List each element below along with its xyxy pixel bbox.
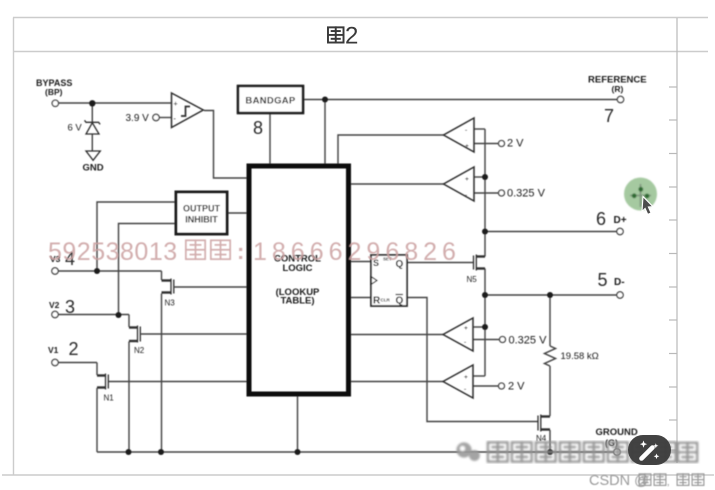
svg-text:5: 5 bbox=[598, 270, 608, 290]
svg-text:D+: D+ bbox=[614, 215, 627, 226]
svg-text:CSDN @: CSDN @ bbox=[589, 473, 649, 489]
svg-text:N2: N2 bbox=[134, 346, 145, 355]
svg-text::: : bbox=[237, 239, 244, 264]
svg-text:V2: V2 bbox=[49, 300, 60, 310]
svg-text:INHIBIT: INHIBIT bbox=[185, 215, 218, 225]
svg-text:3.9 V: 3.9 V bbox=[126, 113, 150, 124]
svg-text:2 V: 2 V bbox=[507, 138, 524, 150]
svg-text:(BP): (BP) bbox=[45, 87, 63, 97]
svg-text:-: - bbox=[464, 386, 466, 393]
svg-text:N5: N5 bbox=[467, 275, 478, 284]
svg-text:0.325 V: 0.325 V bbox=[509, 335, 548, 347]
svg-text:0.325 V: 0.325 V bbox=[507, 188, 546, 200]
svg-text:18666296826: 18666296826 bbox=[253, 238, 461, 266]
svg-text:D-: D- bbox=[614, 277, 625, 288]
svg-text:Q: Q bbox=[396, 296, 404, 307]
svg-text:N1: N1 bbox=[104, 394, 115, 403]
svg-text:+: + bbox=[465, 176, 469, 183]
svg-text:19.58 kΩ: 19.58 kΩ bbox=[561, 351, 599, 362]
svg-text:6 V: 6 V bbox=[68, 123, 83, 134]
svg-text:‚: ‚ bbox=[667, 476, 669, 488]
svg-text:TABLE): TABLE) bbox=[280, 296, 314, 307]
svg-text:-: - bbox=[465, 192, 467, 199]
svg-text:GND: GND bbox=[83, 163, 104, 174]
svg-text:(R): (R) bbox=[612, 84, 624, 94]
svg-text:2: 2 bbox=[69, 339, 79, 359]
svg-text:+: + bbox=[465, 143, 469, 150]
svg-text:-: - bbox=[464, 339, 466, 346]
svg-text:BANDGAP: BANDGAP bbox=[245, 96, 295, 107]
svg-text:GROUND: GROUND bbox=[596, 427, 638, 438]
svg-text:3: 3 bbox=[65, 297, 75, 317]
svg-text:8: 8 bbox=[253, 118, 263, 138]
svg-text:7: 7 bbox=[604, 106, 614, 126]
svg-text:+: + bbox=[464, 374, 468, 381]
svg-text:6: 6 bbox=[596, 209, 606, 229]
svg-text:2: 2 bbox=[345, 23, 358, 50]
svg-text:-: - bbox=[465, 127, 467, 134]
svg-text:-: - bbox=[174, 116, 177, 123]
svg-text:+: + bbox=[174, 101, 178, 108]
svg-text:CLR: CLR bbox=[381, 298, 391, 303]
svg-text:V1: V1 bbox=[48, 345, 59, 355]
svg-text:592538013: 592538013 bbox=[48, 238, 178, 266]
svg-text:OUTPUT: OUTPUT bbox=[183, 204, 221, 214]
svg-text:2 V: 2 V bbox=[508, 381, 525, 393]
svg-text:+: + bbox=[464, 325, 468, 332]
svg-text:N3: N3 bbox=[165, 299, 176, 308]
